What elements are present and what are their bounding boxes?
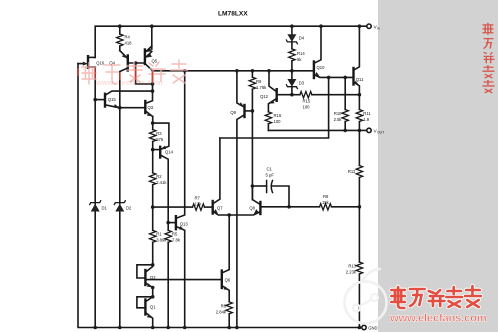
transistor Q7: [213, 138, 230, 215]
transistor Q15: [95, 91, 152, 108]
svg-text:2.5k: 2.5k: [334, 117, 343, 122]
svg-text:Q6: Q6: [225, 278, 231, 283]
wire bias line from Q5 to Q10 base: [153, 70, 314, 72]
capacitor C1: [252, 167, 289, 207]
resistor R8: [289, 194, 360, 210]
top rail Vin: [95, 26, 367, 57]
node Q4/Q5 base junction: [134, 61, 138, 65]
node Q15 emitter junction: [151, 89, 155, 93]
transistor Q12 (mirrored): [260, 71, 292, 112]
transistor Q10: [314, 26, 353, 78]
svg-text:R16: R16: [274, 113, 282, 118]
node C1 left / Q8 collector column: [251, 184, 255, 188]
vertical red watermark text (top right): [482, 23, 494, 93]
transistor Q9: [230, 71, 252, 328]
junction dots on top rail: [118, 24, 122, 28]
resistor R9: [249, 71, 267, 200]
watermark text 电子发烧友 (bottom right, red): [391, 286, 480, 308]
zener D3: [286, 71, 304, 95]
svg-text:1.76k: 1.76k: [256, 85, 267, 90]
svg-text:Q14: Q14: [165, 150, 174, 155]
svg-text:15k: 15k: [322, 200, 330, 205]
svg-text:R12: R12: [348, 169, 356, 174]
terminal Vout: [367, 128, 371, 132]
svg-text:R5: R5: [172, 232, 178, 237]
svg-text:13k: 13k: [195, 202, 203, 207]
svg-text:R4: R4: [125, 35, 131, 40]
resistor R4: [117, 26, 133, 50]
node C1 right leg on R8 line: [287, 205, 291, 209]
svg-text:7.8k: 7.8k: [172, 238, 181, 243]
node Q12 collector on bias line: [267, 69, 271, 73]
svg-text:Q13: Q13: [180, 222, 189, 227]
svg-text:R2: R2: [156, 174, 162, 179]
transistor Q2 (diode connected): [137, 265, 156, 297]
svg-text:100: 100: [274, 119, 282, 124]
svg-text:R10: R10: [334, 111, 342, 116]
svg-text:Q12: Q12: [260, 94, 269, 99]
svg-text:LM78LXX: LM78LXX: [218, 11, 248, 18]
svg-text:Q11: Q11: [356, 77, 364, 82]
svg-text:R8: R8: [323, 194, 329, 199]
junction dots on bottom rail: [93, 326, 97, 330]
svg-text:418: 418: [125, 41, 133, 46]
node R3 bottom / Q14 base: [151, 148, 155, 152]
svg-text:R15: R15: [303, 99, 311, 104]
svg-text:R7: R7: [195, 196, 201, 201]
zener D4: [286, 26, 304, 49]
resistor R16: [265, 112, 282, 131]
red watermark over schematic (red strokes): [82, 60, 187, 84]
red watermark stronger fragments on wires: [78, 68, 153, 83]
svg-text:Q3: Q3: [148, 105, 154, 110]
svg-text:Q1: Q1: [150, 305, 156, 310]
svg-text:1.9: 1.9: [363, 117, 369, 122]
node Q1 base/collector tie: [151, 295, 155, 299]
resistor R11: [356, 95, 371, 131]
node Q11 emitter / R15 / R11: [358, 93, 362, 97]
node R11 bottom on Vout line: [358, 129, 362, 133]
svg-text:in: in: [377, 26, 380, 30]
watermark text 电子发烧友 (bottom right, halo): [391, 286, 480, 308]
svg-text:R11: R11: [363, 111, 371, 116]
svg-text:R9: R9: [256, 79, 262, 84]
watermark gray strip: [378, 0, 498, 332]
transistor Q1 (diode connected): [137, 297, 156, 328]
node Q9 base / R9 column: [251, 109, 255, 113]
resistor R5: [165, 223, 181, 328]
wire Q2 base to Q6 base: [146, 279, 221, 281]
svg-text:D4: D4: [299, 36, 305, 41]
transistor Q6: [222, 215, 231, 302]
resistor R15: [292, 92, 360, 110]
node Q9 emitter on bias line: [235, 69, 239, 73]
wire Q5 collector down to node A: [152, 71, 154, 91]
wire Q5 base loop to node: [136, 63, 153, 84]
zener D1: [90, 100, 108, 328]
node R10 bottom on Vout line: [343, 129, 347, 133]
svg-text:www.elecfans.com: www.elecfans.com: [389, 313, 487, 325]
wire driver feedback line B: [220, 77, 329, 138]
svg-text:R13: R13: [348, 264, 356, 269]
transistor Q3: [120, 91, 154, 123]
watermark logo circle (bottom right): [345, 269, 387, 324]
resistor R14: [289, 49, 306, 71]
node D4/R14/D3 column on bias line: [290, 69, 294, 73]
svg-text:R1: R1: [156, 232, 162, 237]
svg-text:Q10: Q10: [317, 65, 326, 70]
node Q10 emitter / driver line riser: [327, 76, 331, 80]
red watermark over schematic (halo): [82, 60, 187, 84]
resistor R2: [150, 150, 168, 208]
svg-text:R3: R3: [156, 131, 162, 136]
svg-text:Q7: Q7: [217, 206, 223, 211]
resistor R6: [216, 302, 233, 328]
node Q7/Q8 emitter junction: [227, 213, 231, 217]
node Q13 base: [166, 221, 170, 225]
svg-text:576: 576: [156, 137, 164, 142]
svg-text:Q8: Q8: [249, 206, 255, 211]
svg-text:GND: GND: [368, 326, 377, 331]
node R2 bottom / R7 line: [151, 205, 155, 209]
node R1 bottom / Q2 collector: [151, 263, 155, 267]
transistor Q5 (dual collector): [145, 26, 158, 71]
resistor R1: [150, 207, 168, 265]
node Q2 emitter / Q1 collector: [151, 286, 155, 290]
svg-text:OUT: OUT: [377, 131, 384, 135]
resistor R12: [348, 130, 363, 206]
svg-text:www.elecfans.com: www.elecfans.com: [95, 78, 163, 87]
svg-text:2.41k: 2.41k: [156, 180, 167, 185]
node D3 bottom / Q12 base / R15: [290, 93, 294, 97]
terminal Vin: [367, 24, 371, 28]
transistor Q4: [109, 51, 144, 108]
node Q3 base / Q15 collector: [118, 106, 122, 110]
svg-text:D1: D1: [102, 205, 108, 210]
svg-text:D2: D2: [126, 205, 132, 210]
svg-text:2.84k: 2.84k: [216, 310, 227, 315]
svg-text:100: 100: [303, 105, 311, 110]
node R9 top on bias line: [251, 69, 255, 73]
transistor Q8 (mirrored): [229, 186, 289, 215]
resistor R13: [346, 207, 363, 328]
terminal GND: [362, 325, 366, 329]
svg-text:Q5: Q5: [152, 59, 158, 64]
transistor Q16: [78, 56, 105, 99]
svg-text:D3: D3: [299, 80, 305, 85]
transistor Q14: [153, 123, 174, 223]
svg-text:R14: R14: [297, 51, 305, 56]
node R10 top: [343, 76, 347, 80]
node Q15 base on 95 column: [93, 98, 97, 102]
svg-text:C1: C1: [267, 167, 273, 172]
transistor Q13: [168, 71, 188, 328]
svg-text:Q15: Q15: [108, 97, 117, 102]
svg-text:5 μF: 5 μF: [266, 173, 275, 178]
zener D2: [114, 108, 132, 328]
svg-text:2.23k: 2.23k: [346, 270, 357, 275]
node Q13 collector on bias line: [183, 69, 187, 73]
svg-text:Q9: Q9: [230, 110, 236, 115]
transistor Q11: [354, 26, 365, 95]
svg-text:R6: R6: [221, 304, 227, 309]
resistor R7: [153, 196, 213, 211]
wire Vout sense line A: [268, 129, 366, 131]
resistor R3: [150, 123, 164, 150]
node R3 top: [151, 121, 155, 125]
node A (152.5,84): [151, 82, 155, 86]
resistor R10: [334, 77, 349, 130]
node divider (R12/R13/R8): [358, 205, 362, 209]
bottom rail GND: [78, 64, 361, 328]
